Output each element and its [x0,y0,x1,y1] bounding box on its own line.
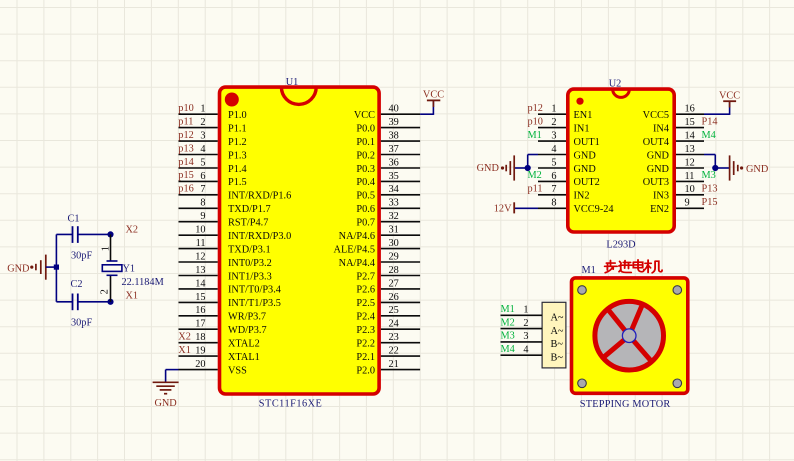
motor rotor [595,301,664,370]
U2 pin 11 (OUT3) [643,171,704,188]
svg-text:1: 1 [523,305,528,316]
svg-text:VCC: VCC [423,90,444,101]
svg-text:13: 13 [195,265,205,276]
svg-text:M1: M1 [528,130,542,141]
U1 pin 30 (ALE/P4.5) [334,238,421,255]
svg-text:M1: M1 [501,304,515,315]
part name L293D [606,240,636,251]
motor pin 4 (B~) [501,344,564,363]
svg-text:28: 28 [389,265,399,276]
crystal Y1 [102,234,163,301]
svg-text:GND: GND [647,150,670,161]
IC U2 body [568,89,674,232]
svg-text:38: 38 [389,131,399,142]
svg-text:15: 15 [195,292,205,303]
svg-text:VCC: VCC [719,90,740,101]
U1 pin 21 (P2.0) [356,359,420,376]
svg-text:EN2: EN2 [650,204,669,215]
Y1 pin 1 (rotated) [100,246,111,251]
U1 pin 13 (INT1/P3.3) [179,265,272,282]
svg-text:OUT4: OUT4 [643,137,669,148]
svg-text:C2: C2 [71,279,83,290]
svg-text:4: 4 [200,144,205,155]
U2 pin 4 (GND) [538,144,596,161]
svg-text:STEPPING MOTOR: STEPPING MOTOR [580,399,671,410]
svg-text:GND: GND [154,398,177,409]
node X2 [107,225,138,238]
part name STC11F16XE [259,399,323,410]
svg-text:16: 16 [685,104,695,115]
svg-text:3: 3 [551,131,556,142]
svg-text:8: 8 [200,198,205,209]
svg-text:18: 18 [195,332,205,343]
U2 pin 3 (OUT1) [538,131,600,148]
net label M2 [528,170,542,181]
svg-text:p11: p11 [528,184,543,195]
svg-text:P0.3: P0.3 [356,164,375,175]
U2 pin 6 (OUT2) [538,171,600,188]
svg-text:P0.5: P0.5 [356,191,375,202]
U1 pin 7 (INT/RXD/P1.6) [179,184,292,201]
svg-text:GND: GND [574,164,597,175]
svg-text:INT1/P3.3: INT1/P3.3 [228,271,272,282]
svg-text:INT/RXD/P1.6: INT/RXD/P1.6 [228,191,291,202]
net label p10 [178,103,193,114]
U1 pin 19 (XTAL1) [179,346,260,363]
U2 pin 16 (VCC5) [643,104,704,121]
svg-text:IN1: IN1 [574,123,590,134]
svg-text:29: 29 [389,251,399,262]
motor pin 1 (A~) [501,305,564,324]
svg-text:VCC9-24: VCC9-24 [574,204,614,215]
svg-text:U1: U1 [286,77,299,88]
svg-text:22.1184M: 22.1184M [122,277,164,288]
net label p12 [528,103,543,114]
svg-text:1: 1 [551,104,556,115]
svg-text:22: 22 [389,346,399,357]
IC U1 body [220,87,380,394]
svg-text:INT/T0/P3.4: INT/T0/P3.4 [228,285,281,296]
U1 pin 16 (WR/P3.7) [179,305,267,322]
U1 pin 14 (INT/T0/P3.4) [179,278,281,295]
svg-text:P14: P14 [702,116,718,127]
svg-text:36: 36 [389,157,399,168]
net label M4 [702,130,716,141]
svg-text:P2.1: P2.1 [356,352,375,363]
net label p15 [178,170,193,181]
U1 pin 8 (TXD/P1.7) [179,198,271,215]
ground GND (U2 right) [730,155,769,180]
motor pin 3 (B~) [501,331,564,350]
svg-text:X1: X1 [126,291,139,302]
U2 pin 14 (OUT4) [643,131,704,148]
net label p11 [178,116,193,127]
svg-text:P2.3: P2.3 [356,325,375,336]
svg-text:25: 25 [389,305,399,316]
svg-text:30: 30 [389,238,399,249]
U1 pin 17 (WD/P3.7) [179,319,267,336]
svg-text:12: 12 [195,251,205,262]
motor screws [578,286,682,388]
svg-text:M1: M1 [582,265,596,276]
svg-text:21: 21 [389,359,399,370]
power 12V [494,202,514,214]
svg-text:WR/P3.7: WR/P3.7 [228,312,266,323]
svg-text:26: 26 [389,292,399,303]
svg-text:7: 7 [200,184,205,195]
svg-text:INT/T1/P3.5: INT/T1/P3.5 [228,298,281,309]
U1 pin 6 (P1.5) [179,171,247,188]
U1 pin 1 (P1.0) [179,104,247,121]
svg-text:M3: M3 [501,331,515,342]
svg-text:XTAL2: XTAL2 [228,339,260,350]
power VCC (U2) [719,90,740,107]
svg-text:INT/RXD/P3.0: INT/RXD/P3.0 [228,231,291,242]
capacitor C2 [71,279,93,329]
wire pin40 to VCC [420,100,433,115]
svg-text:16: 16 [195,305,205,316]
U1 pin 28 (P2.7) [356,265,420,282]
U1 pin 18 (XTAL2) [179,332,260,349]
svg-text:TXD/P3.1: TXD/P3.1 [228,244,271,255]
svg-text:TXD/P1.7: TXD/P1.7 [228,204,271,215]
net label p13 [178,143,193,154]
svg-text:X2: X2 [178,332,191,343]
svg-text:p10: p10 [178,103,193,114]
svg-text:2: 2 [523,318,528,329]
svg-text:10: 10 [195,225,205,236]
svg-text:GND: GND [746,164,769,175]
svg-text:INT0/P3.2: INT0/P3.2 [228,258,272,269]
svg-text:14: 14 [685,131,695,142]
net label p14 [178,157,193,168]
svg-text:VCC: VCC [354,110,375,121]
svg-text:p15: p15 [178,170,193,181]
net label p16 [178,184,193,195]
ground GND (crystal) [7,255,46,280]
U1 pin 23 (P2.2) [356,332,420,349]
motor connector [542,302,566,368]
svg-text:9: 9 [200,211,205,222]
U1 pin 32 (P0.7) [356,211,420,228]
svg-text:P2.7: P2.7 [356,271,375,282]
svg-text:X1: X1 [178,345,191,356]
junction (GND/caps) [54,265,59,270]
svg-text:XTAL1: XTAL1 [228,352,260,363]
svg-text:24: 24 [389,319,399,330]
svg-text:11: 11 [685,171,695,182]
svg-text:32: 32 [389,211,399,222]
svg-text:14: 14 [195,278,205,289]
svg-text:P1.0: P1.0 [228,110,247,121]
net label P13 [702,184,718,195]
U2 pin 15 (IN4) [653,117,704,134]
svg-text:P2.0: P2.0 [356,365,375,376]
U1 pin 39 (P0.0) [356,117,420,134]
net label p10 [528,116,543,127]
svg-text:L293D: L293D [606,240,636,251]
designator U1 [286,77,299,88]
svg-text:EN1: EN1 [574,110,593,121]
svg-text:8: 8 [551,198,556,209]
U1 pin 34 (P0.5) [356,184,420,201]
svg-text:1: 1 [100,246,111,251]
wire VSS to GND [166,370,179,383]
svg-text:31: 31 [389,225,399,236]
svg-text:10: 10 [685,184,695,195]
svg-text:p10: p10 [528,116,543,127]
U2 pin 9 (EN2) [650,198,704,215]
svg-text:17: 17 [195,319,205,330]
svg-text:WD/P3.7: WD/P3.7 [228,325,267,336]
designator M1 [582,265,596,276]
svg-text:GND: GND [647,164,670,175]
svg-text:P0.6: P0.6 [356,204,375,215]
motor pin 2 (A~) [501,318,564,337]
U1 pin 36 (P0.3) [356,157,420,174]
svg-text:3: 3 [200,131,205,142]
svg-text:7: 7 [551,184,556,195]
U1 pin 37 (P0.2) [356,144,420,161]
net label X1 [178,345,191,356]
svg-text:p12: p12 [178,130,193,141]
svg-text:X2: X2 [126,225,139,236]
U1 pin 26 (P2.5) [356,292,420,309]
U1 pin 40 (VCC) [354,104,420,121]
U1 pin 5 (P1.4) [179,157,247,174]
svg-text:11: 11 [196,238,206,249]
svg-text:M2: M2 [501,317,515,328]
svg-text:2: 2 [551,117,556,128]
U1 pin 25 (P2.4) [356,305,420,322]
svg-text:2: 2 [100,289,111,294]
svg-text:39: 39 [389,117,399,128]
U1 pin 35 (P0.4) [356,171,420,188]
svg-text:P0.1: P0.1 [356,137,375,148]
svg-text:P1.1: P1.1 [228,123,247,134]
U1 pin 2 (P1.1) [179,117,247,134]
svg-text:P13: P13 [702,184,718,195]
U2 pin 7 (IN2) [538,184,590,201]
svg-text:ALE/P4.5: ALE/P4.5 [334,244,375,255]
svg-text:P1.4: P1.4 [228,164,247,175]
svg-text:37: 37 [389,144,399,155]
net label M3 [702,170,716,181]
svg-text:13: 13 [685,144,695,155]
svg-text:P1.5: P1.5 [228,177,247,188]
wire U2 pins 4,5 to GND [514,155,538,169]
svg-text:M4: M4 [702,130,716,141]
U2 pin 8 (VCC9-24) [538,198,614,215]
wire top rail [56,233,110,235]
Y1 pin 2 (rotated) [100,289,111,294]
svg-text:OUT2: OUT2 [574,177,600,188]
svg-text:IN3: IN3 [653,191,669,202]
svg-text:M3: M3 [702,170,716,181]
svg-text:P2.6: P2.6 [356,285,375,296]
svg-text:P15: P15 [702,197,718,208]
label STEPPING MOTOR [580,399,671,410]
junction U2 left GND [525,165,531,171]
svg-text:VCC5: VCC5 [643,110,669,121]
net label p11 [528,184,543,195]
svg-text:NA/P4.6: NA/P4.6 [339,231,375,242]
svg-text:GND: GND [7,263,30,274]
motor M1 body [572,278,688,393]
wire junction vertical [55,234,57,301]
svg-text:p13: p13 [178,143,193,154]
svg-text:19: 19 [195,346,205,357]
svg-text:A~: A~ [551,313,564,324]
svg-text:3: 3 [523,331,528,342]
svg-text:23: 23 [389,332,399,343]
svg-text:30pF: 30pF [71,251,92,262]
caption 步进电机 [605,260,662,273]
svg-text:A~: A~ [551,326,564,337]
svg-text:P0.7: P0.7 [356,218,375,229]
wire U2 pin16 to VCC [704,101,730,115]
svg-text:P2.4: P2.4 [356,312,375,323]
svg-text:P2.5: P2.5 [356,298,375,309]
svg-text:P2.2: P2.2 [356,339,375,350]
svg-text:35: 35 [389,171,399,182]
svg-text:4: 4 [523,344,528,355]
svg-text:P0.2: P0.2 [356,150,375,161]
svg-text:C1: C1 [68,214,80,225]
U1 pin 15 (INT/T1/P3.5) [179,292,281,309]
svg-text:P1.2: P1.2 [228,137,247,148]
U1 pin 9 (RST/P4.7) [179,211,269,228]
svg-text:GND: GND [574,150,597,161]
net label P15 [702,197,718,208]
svg-text:B~: B~ [551,339,564,350]
svg-text:P0.4: P0.4 [356,177,375,188]
svg-text:p12: p12 [528,103,543,114]
svg-text:12: 12 [685,157,695,168]
svg-text:20: 20 [195,359,205,370]
svg-text:6: 6 [551,171,556,182]
svg-text:p16: p16 [178,184,193,195]
net label M1 [528,130,542,141]
svg-text:VSS: VSS [228,365,247,376]
U2 pin 1 (EN1) [538,104,592,121]
U1 pin 4 (P1.3) [179,144,247,161]
svg-text:33: 33 [389,198,399,209]
wire 12V to U2 pin 8 [514,207,538,209]
svg-text:OUT3: OUT3 [643,177,669,188]
svg-text:RST/P4.7: RST/P4.7 [228,218,268,229]
svg-text:2: 2 [200,117,205,128]
svg-text:12V: 12V [494,203,512,214]
net label M4 [501,344,515,355]
svg-text:30pF: 30pF [71,318,92,329]
U1 pin 24 (P2.3) [356,319,420,336]
junction U2 right GND [712,165,718,171]
U1 pin 38 (P0.1) [356,131,420,148]
net label M3 [501,331,515,342]
node X1 [107,291,138,305]
svg-text:P0.0: P0.0 [356,123,375,134]
svg-text:5: 5 [200,157,205,168]
svg-text:Y1: Y1 [123,264,136,275]
U2 pin 13 (GND) [647,144,704,161]
U2 pin 10 (IN3) [653,184,704,201]
svg-text:M2: M2 [528,170,542,181]
svg-text:NA/P4.4: NA/P4.4 [339,258,375,269]
svg-text:M4: M4 [501,344,515,355]
svg-text:IN2: IN2 [574,191,590,202]
U1 pin 31 (NA/P4.6) [339,225,420,242]
wire bottom rail [56,301,110,303]
svg-text:p14: p14 [178,157,193,168]
U1 pin 20 (VSS) [179,359,248,376]
wire GND to junction [46,266,57,268]
svg-text:34: 34 [389,184,399,195]
svg-text:5: 5 [551,157,556,168]
U1 pin 22 (P2.1) [356,346,420,363]
svg-text:B~: B~ [551,352,564,363]
U2 pin 5 (GND) [538,157,596,174]
designator U2 [609,79,622,90]
U1 pin 29 (NA/P4.4) [339,251,420,268]
svg-text:STC11F16XE: STC11F16XE [259,399,323,410]
U1 pin 12 (INT0/P3.2) [179,251,272,268]
svg-text:P1.3: P1.3 [228,150,247,161]
svg-text:4: 4 [551,144,556,155]
svg-text:27: 27 [389,278,399,289]
svg-text:40: 40 [389,104,399,115]
capacitor C1 [68,214,93,262]
wire U2 pins 13,12 to GND [704,155,730,169]
U1 pin 11 (TXD/P3.1) [179,238,271,255]
U1 pin 33 (P0.6) [356,198,420,215]
net label M1 [501,304,515,315]
svg-text:GND: GND [477,163,500,174]
net label M2 [501,317,515,328]
svg-text:6: 6 [200,171,205,182]
net label X2 [178,332,191,343]
U2 pin 12 (GND) [647,157,704,174]
svg-text:1: 1 [200,104,205,115]
U1 pin 27 (P2.6) [356,278,420,295]
U2 pin 2 (IN1) [538,117,590,134]
U1 pin 10 (INT/RXD/P3.0) [179,225,292,242]
svg-text:OUT1: OUT1 [574,137,600,148]
net label p12 [178,130,193,141]
ground GND (U1 VSS) [153,382,179,409]
svg-text:p11: p11 [178,116,193,127]
ground GND (U2 left) [477,155,515,180]
power VCC (U1) [423,90,444,107]
svg-text:U2: U2 [609,79,622,90]
svg-text:15: 15 [685,117,695,128]
svg-text:IN4: IN4 [653,123,669,134]
svg-text:9: 9 [685,198,690,209]
net label P14 [702,116,718,127]
U1 pin 3 (P1.2) [179,131,247,148]
